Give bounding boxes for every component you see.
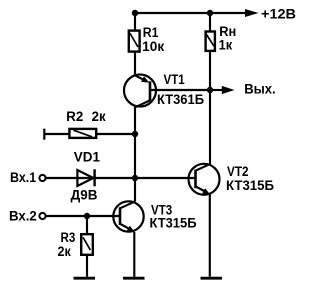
svg-text:VT2: VT2 bbox=[227, 164, 249, 179]
svg-text:КТ361Б: КТ361Б bbox=[157, 92, 204, 107]
wire: Вх.1 to diode anode bbox=[46, 177, 95, 179]
diode VD1 bbox=[77, 169, 94, 186]
terminal Вх.1 bbox=[39, 175, 45, 181]
svg-text:VT1: VT1 bbox=[164, 72, 186, 87]
svg-text:R3: R3 bbox=[61, 230, 76, 245]
power arrow +12V bbox=[245, 9, 259, 17]
node: junction dot top rail / R1 bbox=[132, 10, 138, 16]
wire: node R2 down to node VD1 bbox=[134, 134, 136, 178]
node: junction dot Вх.2 / R3 bbox=[84, 213, 90, 219]
resistor R3 bbox=[81, 216, 93, 277]
svg-text:2к: 2к bbox=[92, 109, 106, 124]
ground bar under VT3 bbox=[123, 277, 145, 280]
resistor R1 bbox=[129, 13, 140, 76]
resistor Rн bbox=[206, 13, 215, 90]
output arrow Вых. bbox=[210, 89, 223, 91]
node: junction dot R2 / VT1 collector bbox=[132, 131, 138, 137]
ground bar under R3 bbox=[74, 277, 96, 280]
svg-text:2к: 2к bbox=[58, 244, 71, 259]
wire: VT1 base to output node bbox=[150, 89, 210, 91]
terminal Вх.2 bbox=[39, 213, 45, 219]
wire: VT3 emitter down to ground bbox=[133, 232, 135, 277]
svg-text:R2: R2 bbox=[66, 109, 83, 124]
wire: VT2 collector up to output node bbox=[209, 90, 211, 165]
transistor VT1 (PNP, base right) bbox=[124, 75, 156, 108]
svg-text:10к: 10к bbox=[142, 39, 164, 54]
svg-text:Д9В: Д9В bbox=[71, 187, 98, 202]
node: output junction dot bbox=[207, 87, 213, 93]
ground bar under VT2 bbox=[201, 277, 223, 280]
transistor VT3 (NPN, base left) bbox=[113, 201, 143, 232]
svg-text:1к: 1к bbox=[219, 38, 233, 53]
wire: Вх.2 to node R3 bbox=[46, 215, 87, 217]
wire: VT2 emitter down to ground bbox=[209, 194, 211, 276]
node: junction dot VD1 / VT2 base bbox=[132, 175, 138, 181]
resistor R2 bbox=[44, 129, 135, 140]
svg-text:Вых.: Вых. bbox=[244, 82, 276, 97]
svg-text:КТ315Б: КТ315Б bbox=[226, 178, 274, 193]
svg-text:Вх.2: Вх.2 bbox=[9, 209, 37, 224]
wire: VT1 collector down to R2 node bbox=[134, 107, 136, 135]
wire: node down to VT3 collector bbox=[134, 178, 136, 202]
wire: node to VT3 base bbox=[87, 215, 120, 217]
svg-text:Вх.1: Вх.1 bbox=[10, 170, 37, 185]
svg-text:VD1: VD1 bbox=[74, 150, 101, 165]
wire: +12V top rail bbox=[135, 12, 246, 14]
svg-text:КТ315Б: КТ315Б bbox=[150, 216, 197, 231]
svg-text:+12В: +12В bbox=[261, 6, 296, 21]
wire: node to VT2 base bbox=[135, 177, 196, 179]
node: junction dot top rail / Rн bbox=[207, 10, 213, 16]
wire: diode cathode to node bbox=[95, 177, 135, 179]
transistor VT2 (NPN, base left) bbox=[189, 164, 220, 195]
